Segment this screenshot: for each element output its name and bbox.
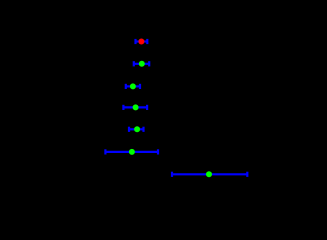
data point 6 (green circle marker) xyxy=(129,149,135,155)
data point 3 (green circle marker) xyxy=(130,83,136,89)
error bar row 1 (horizontal bar, blue) xyxy=(136,40,148,42)
error bar row 2 right cap xyxy=(148,61,150,66)
error bar row 2 (horizontal bar, blue) xyxy=(134,63,149,65)
error bar row 3 right cap xyxy=(139,84,141,89)
error bar row 6 (wide horizontal bar, blue) xyxy=(105,151,158,153)
error bar row 7 right cap xyxy=(246,172,248,177)
error bar row 4 left cap xyxy=(122,105,124,110)
data point 2 (green circle marker) xyxy=(139,61,145,67)
error bar row 1 right cap xyxy=(146,39,148,44)
data point 7 (green circle marker) xyxy=(206,171,212,177)
error bar row 4 (horizontal bar, blue) xyxy=(123,106,147,108)
error bar row 5 (horizontal bar, blue) xyxy=(129,128,144,130)
error bar row 4 right cap xyxy=(146,105,148,110)
data point 4 (green circle marker) xyxy=(133,104,139,110)
data point 5 (green circle marker) xyxy=(134,126,140,132)
data point 1 (red circle marker) xyxy=(138,39,144,45)
error bar row 3 (horizontal bar, blue) xyxy=(126,85,140,87)
error bar row 5 right cap xyxy=(142,127,144,132)
error bar row 3 left cap xyxy=(125,84,127,89)
error bar row 6 left cap xyxy=(104,149,106,154)
error bar row 6 right cap xyxy=(157,149,159,154)
error bar row 2 left cap xyxy=(133,61,135,66)
error bar row 7 (wide horizontal bar, blue) xyxy=(172,173,247,175)
error bar row 5 left cap xyxy=(128,127,130,132)
error bar row 1 left cap xyxy=(134,39,136,44)
error bar row 7 left cap xyxy=(171,172,173,177)
